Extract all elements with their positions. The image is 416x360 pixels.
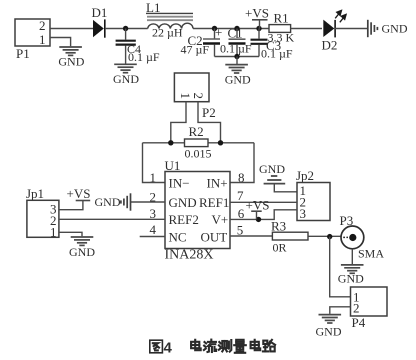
svg-text:2: 2 (353, 301, 360, 316)
svg-text:GND: GND (113, 72, 139, 86)
svg-text:V+: V+ (212, 212, 229, 227)
svg-text:2: 2 (39, 18, 46, 33)
svg-text:8: 8 (238, 170, 245, 185)
svg-text:R3: R3 (271, 219, 286, 234)
svg-text:4: 4 (150, 222, 157, 237)
svg-text:P1: P1 (16, 46, 30, 61)
svg-text:1: 1 (178, 93, 193, 100)
svg-text:0.015: 0.015 (185, 147, 212, 161)
svg-text:4: 4 (164, 340, 173, 357)
svg-text:INA28X: INA28X (165, 247, 214, 262)
svg-text:0.1 µF: 0.1 µF (128, 50, 160, 64)
svg-text:GND: GND (338, 272, 364, 286)
svg-text:SMA: SMA (358, 247, 384, 261)
svg-text:+VS: +VS (67, 186, 91, 201)
svg-text:GND: GND (225, 72, 251, 86)
svg-text:NC: NC (169, 229, 187, 244)
svg-text:OUT: OUT (201, 229, 228, 244)
svg-text:7: 7 (237, 188, 244, 203)
svg-text:1: 1 (50, 225, 57, 240)
svg-text:3.3 K: 3.3 K (268, 30, 295, 44)
svg-text:+VS: +VS (246, 198, 270, 213)
svg-text:IN+: IN+ (207, 176, 228, 191)
svg-text:GND: GND (95, 195, 121, 209)
svg-text:P4: P4 (352, 315, 366, 330)
svg-text:GND: GND (69, 245, 95, 259)
svg-text:2: 2 (191, 93, 206, 100)
svg-text:Jp1: Jp1 (26, 186, 44, 201)
svg-text:+VS: +VS (245, 6, 269, 21)
svg-text:22 µH: 22 µH (152, 26, 183, 40)
svg-text:GND: GND (169, 195, 197, 210)
svg-text:D1: D1 (92, 5, 108, 20)
svg-text:GND: GND (259, 162, 285, 176)
svg-text:3: 3 (300, 206, 307, 221)
svg-text:5: 5 (237, 223, 244, 238)
svg-text:R2: R2 (189, 124, 204, 139)
svg-text:0.1 µF: 0.1 µF (220, 42, 252, 56)
svg-text:GND: GND (58, 55, 84, 69)
svg-text:C1: C1 (228, 26, 243, 41)
svg-text:0R: 0R (273, 240, 287, 254)
svg-text:1: 1 (150, 170, 157, 185)
svg-text:1: 1 (39, 32, 46, 47)
svg-text:GND: GND (382, 21, 408, 35)
svg-text:REF2: REF2 (169, 212, 199, 227)
svg-text:D2: D2 (322, 38, 338, 53)
svg-text:R1: R1 (274, 11, 289, 26)
svg-text:P2: P2 (202, 105, 216, 120)
svg-text:GND: GND (316, 324, 342, 338)
svg-text:Jp2: Jp2 (296, 168, 314, 183)
svg-text:0.1 µF: 0.1 µF (261, 47, 293, 61)
svg-text:IN−: IN− (169, 176, 190, 191)
svg-text:REF1: REF1 (199, 195, 229, 210)
svg-text:+: + (215, 25, 222, 40)
